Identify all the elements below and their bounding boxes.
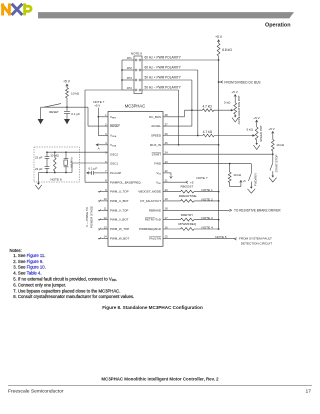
wire JP3 50Hz+ polarity [142,75,192,80]
jumper JP1 [122,56,134,60]
svg-text:NOTE 4: NOTE 4 [202,226,213,230]
svg-text:+5 V: +5 V [253,116,260,120]
resistor RPWMFREQ [163,222,219,230]
svg-text:23: 23 [165,160,168,164]
svg-text:17: 17 [165,216,168,220]
svg-text:7. Use bypass capacitors place: 7. Use bypass capacitors placed close to… [13,288,120,293]
svg-text:TO RESISTIVE BRAKE DRIVER: TO RESISTIVE BRAKE DRIVER [234,209,281,213]
svg-text:4.7 kΩ: 4.7 kΩ [203,130,213,134]
svg-text:MUX_IN: MUX_IN [150,143,161,147]
svg-text:MC3PHAC: MC3PHAC [125,104,145,109]
svg-text:4. See Table 4.: 4. See Table 4. [13,271,41,276]
svg-text:4.0 MHz: 4.0 MHz [69,157,73,168]
capacitor 22 pF upper [35,152,49,162]
svg-text:PWM_W_BOT: PWM_W_BOT [110,236,129,240]
svg-text:15: 15 [165,235,168,239]
svg-text:5 kΩ: 5 kΩ [246,128,253,132]
node divided dc bus entry [218,81,220,83]
svg-text:RETRY/TxD: RETRY/TxD [145,218,161,222]
svg-text:10 kΩ: 10 kΩ [233,173,242,177]
ground speed pot [255,143,258,145]
svg-text:A: A [98,146,100,150]
svg-text:VDDA: VDDA [110,134,117,139]
power +5V accel pot [231,90,238,103]
resistor 10 kOhm start pull-up [271,140,284,155]
svg-text:17: 17 [306,389,312,395]
svg-text:VDD: VDD [156,180,161,185]
svg-text:VREF: VREF [110,115,117,120]
wire OSC1 rail [47,163,108,173]
svg-text:NOTE 5: NOTE 5 [215,235,226,239]
svg-text:VSS: VSS [156,171,161,176]
svg-text:START: START [152,152,162,156]
wire crystal ground stem [39,173,48,185]
svg-text:PWMPOL_BASEFREQ: PWMPOL_BASEFREQ [110,180,141,184]
pin labels and numbers U1 [104,113,168,240]
svg-text:FROM SYSTEM FAULT: FROM SYSTEM FAULT [239,237,272,241]
svg-text:5 kΩ: 5 kΩ [224,100,231,104]
capacitor 0.1 uF PLLCAP [87,167,108,175]
capacitor 22 pF lower [35,163,49,172]
wire PWM outputs to power stage [98,190,108,240]
ground reset switch [38,119,44,124]
jumper JP3 [122,76,134,80]
node accel branch [191,109,193,111]
svg-text:SPEED POT: SPEED POT [259,125,263,142]
node OSC1 junctions [46,172,48,174]
svg-text:ACCELERATION POT: ACCELERATION POT [237,95,241,124]
wire JP1 60Hz+ polarity [142,55,219,60]
svg-text:DETECTION CIRCUIT: DETECTION CIRCUIT [241,242,272,246]
node jumper common JP3 [121,79,123,81]
node JP1 to bus [218,59,220,61]
svg-text:25: 25 [165,141,168,145]
wire 22pF mid tap [46,162,48,163]
capacitor 0.1 uF reset [64,107,80,119]
power +5V dc-bus pull-up [215,35,223,43]
svg-text:RBRAKE: RBRAKE [149,208,161,212]
svg-text:26: 26 [165,132,168,136]
svg-text:8. Consult crystal/resonator m: 8. Consult crystal/resonator manufacture… [13,294,134,299]
svg-text:Freescale Semiconductor: Freescale Semiconductor [8,389,64,395]
resistor 6.8 kOhm [217,43,232,56]
wire reset node to switch [41,106,67,108]
jumper JP4 [122,86,134,90]
potentiometer 5 kOhm speed [246,127,258,145]
wire JP4 drop [178,90,180,145]
oscillator dashed box NOTE 8 [34,147,80,182]
node JP2 to speed [197,135,199,137]
svg-text:22: 22 [165,169,168,173]
svg-text:ACCEL: ACCEL [151,124,161,128]
resistor 4.7 kOhm speed [203,130,254,137]
svg-text:20: 20 [165,188,168,192]
resistor 4.7 kOhm accel [185,105,231,112]
wire reset node to pin 2 [67,107,108,126]
svg-text:RPWMFREQ: RPWMFREQ [178,222,196,226]
svg-text:28: 28 [165,113,168,117]
jumper JP2 [122,66,134,70]
svg-text:12: 12 [104,216,107,220]
svg-text:PWMFREQ/RxD: PWMFREQ/RxD [139,227,161,231]
svg-text:+5 V: +5 V [268,127,275,131]
analog ground A [96,144,99,151]
svg-text:NOTE 1: NOTE 1 [202,188,213,192]
svg-text:16: 16 [165,225,168,229]
footer rule [8,384,312,386]
ground start switch [272,176,275,178]
svg-text:9: 9 [105,188,107,192]
switch START/STOP [270,154,273,177]
svg-text:11: 11 [104,207,107,211]
svg-text:PWM_V_TOP: PWM_V_TOP [110,208,128,212]
input FROM DIVIDED DC BUS [219,80,261,84]
svg-text:RRETRY: RRETRY [181,213,193,217]
op-amp U1 MC3PHAC body [108,112,163,247]
svg-text:PWM_U_TOP: PWM_U_TOP [110,190,129,194]
svg-text:DC_BUS: DC_BUS [149,115,161,119]
svg-text:4.7 kΩ: 4.7 kΩ [203,105,213,109]
svg-text:START/STOP: START/STOP [275,155,279,173]
svg-text:10 kΩ: 10 kΩ [71,91,80,95]
svg-text:JP2: JP2 [127,66,132,70]
wire pin 28 DC_BUS [163,110,185,117]
power +5V analog NOTE 7 [93,100,104,136]
svg-text:22 pF: 22 pF [35,167,43,171]
svg-text:PWM_V_BOT: PWM_V_BOT [110,218,129,222]
ground crystal [37,183,40,185]
wire JP4 50Hz- polarity [142,85,182,90]
svg-text:60 Hz − PWM POLARITY: 60 Hz − PWM POLARITY [145,65,182,69]
svg-text:RBOOST: RBOOST [181,185,194,189]
node mux_in to bus [218,144,220,146]
power +5V reset pull-up [63,80,71,88]
svg-text:10: 10 [104,197,107,201]
output RBRAKE to brake driver [163,209,281,213]
svg-text:FROM DIVIDED DC BUS: FROM DIVIDED DC BUS [224,80,260,84]
node reset [66,106,68,108]
svg-text:Operation: Operation [265,22,290,28]
svg-text:19: 19 [165,197,168,201]
svg-text:Figure 8. Standalone MC3PHAC C: Figure 8. Standalone MC3PHAC Configurati… [102,305,203,310]
svg-text:PWM_U_BOT: PWM_U_BOT [110,199,129,203]
crystal 4.0 MHz [64,152,74,172]
ground PLLCAP side [87,172,89,174]
node OSC2 junctions [46,151,48,153]
svg-text:PLLCAP: PLLCAP [110,171,121,175]
node fwd [229,163,231,165]
svg-text:1. See Figure 11.: 1. See Figure 11. [13,253,45,258]
svg-text:0.1 µF: 0.1 µF [88,167,97,171]
power +5V fwd [240,179,246,186]
wire mux-in bus vertical [218,56,220,229]
switch RESET pushbutton [41,104,61,119]
power +5V start [268,127,275,140]
ground fwd switch [250,187,253,189]
svg-text:DT_FAULTOUT: DT_FAULTOUT [140,199,161,203]
node rretry to bus [218,219,220,221]
NXP logo [3,5,31,14]
svg-text:FAULTIN: FAULTIN [149,236,161,240]
ground VSS arrow [170,176,172,178]
node rboost to bus [218,191,220,193]
svg-text:+5 V: +5 V [215,35,223,39]
svg-text:RDEADTIME: RDEADTIME [179,194,197,198]
node JP4 to mux_in [178,144,180,146]
svg-text:NOTE 6: NOTE 6 [131,51,142,55]
node start [272,153,274,155]
header bar [38,12,294,18]
wire jumper common to pin 8 [85,60,122,182]
svg-text:VSSA: VSSA [110,143,117,148]
wire JP2 60Hz- polarity [142,65,198,70]
svg-text:60 Hz + PWM POLARITY: 60 Hz + PWM POLARITY [145,55,182,59]
wire JP2 drop [197,70,199,136]
svg-text:NOTE 2: NOTE 2 [202,198,213,202]
svg-text:+5: +5 [243,179,247,183]
svg-text:10 MΩ: 10 MΩ [50,154,59,158]
wire +5V to pin 3 VDDA [98,135,108,137]
connector jumper block [134,56,142,94]
power +5 VDD NOTE 7 [163,176,208,184]
wire +5V to pin 1 VREF [98,116,108,118]
svg-text:14: 14 [104,235,107,239]
node rpwmfreq to bus [218,228,220,230]
power +5V speed pot [253,116,260,127]
wire pin 23 FWD [163,163,251,165]
svg-text:NOTE 7: NOTE 7 [196,176,207,180]
wire reset pull-up to node [66,98,68,107]
svg-text:24: 24 [165,151,168,155]
svg-text:+5 V: +5 V [94,104,100,108]
svg-text:6.8 kΩ: 6.8 kΩ [222,48,232,52]
svg-text:JP1: JP1 [127,56,132,60]
svg-text:5. If no external fault circui: 5. If no external fault circuit is provi… [13,277,117,283]
svg-text:JP4: JP4 [127,86,132,90]
svg-text:OSC1: OSC1 [110,162,118,166]
resistor 10 MOhm [50,152,59,172]
wire pin 4 VSSA [96,144,108,146]
potentiometer 5 kOhm acceleration [224,100,237,117]
svg-text:+5 V: +5 V [63,80,71,84]
switch FWD/REV [249,164,252,189]
svg-text:FWD: FWD [154,162,161,166]
svg-text:SPEED: SPEED [151,134,161,138]
svg-text:RESET: RESET [49,110,59,114]
resistor 10 kOhm fwd pull-up [228,164,242,187]
resistor RBOOST [163,185,219,193]
wire pin 27 ACCEL [163,80,192,126]
svg-text:NOTE 8: NOTE 8 [50,178,61,182]
svg-text:PWM_W_TOP: PWM_W_TOP [110,227,129,231]
svg-text:0.1 µF: 0.1 µF [71,112,80,116]
wire pin 22 VSS [163,173,171,176]
wiper arrow accel pot [231,109,234,111]
svg-text:10 kΩ: 10 kΩ [276,143,285,147]
svg-text:MC3PHAC Monolithic Intelligent: MC3PHAC Monolithic Intelligent Motor Con… [101,377,219,382]
wiper arrow speed pot [252,134,255,136]
svg-text:+5 V: +5 V [231,90,238,94]
svg-text:RESET: RESET [110,124,120,128]
input FAULTIN from fault circuit [163,235,272,246]
svg-text:3. See Figure 10.: 3. See Figure 10. [13,265,46,270]
svg-text:50 Hz + PWM POLARITY: 50 Hz + PWM POLARITY [145,75,182,79]
wire pin 26 SPEED [163,135,203,137]
svg-text:27: 27 [165,122,168,126]
node rdeadtime to bus [218,200,220,202]
svg-text:18: 18 [165,207,168,211]
svg-text:OSC2: OSC2 [110,152,118,156]
svg-text:6. Connect only one jumper.: 6. Connect only one jumper. [13,282,66,287]
svg-text:21: 21 [165,179,168,183]
wire pin 25 MUX_IN [163,144,219,146]
svg-text:FWD/REV: FWD/REV [254,173,258,186]
svg-text:13: 13 [104,225,107,229]
svg-text:22 pF: 22 pF [35,156,43,160]
resistor RDEADTIME [163,194,219,202]
ground reset capacitor [64,119,70,124]
node VREF supply [97,116,99,118]
svg-text:VBOOST_MODE: VBOOST_MODE [138,190,161,194]
wire OSC2 rail [47,151,108,153]
wire pin 24 START [163,153,273,155]
svg-text:2. See Figure 9.: 2. See Figure 9. [13,259,43,264]
resistor RRETRY [163,213,219,221]
resistor 10 kOhm reset pull-up [66,88,80,98]
svg-text:NOTE 3: NOTE 3 [202,216,213,220]
svg-text:JP3: JP3 [127,76,132,80]
svg-text:POWER STAGE: POWER STAGE [89,206,93,228]
ground accel pot [234,116,237,118]
svg-text:50 Hz − PWM POLARITY: 50 Hz − PWM POLARITY [145,85,182,89]
node jumper common JP2 [121,69,123,71]
